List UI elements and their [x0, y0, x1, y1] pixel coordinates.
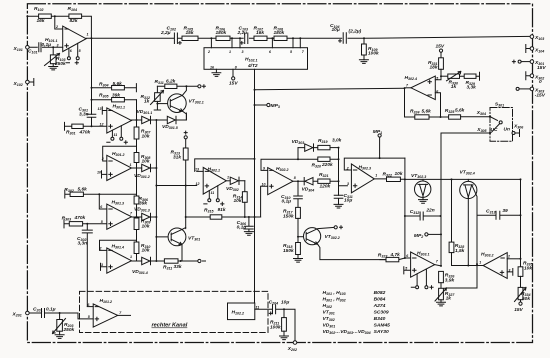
svg-text:18k: 18k [430, 64, 438, 70]
op-amp H301.1 [107, 108, 132, 133]
MP1 stub [378, 134, 381, 137]
H302.1 bottom pins [209, 186, 218, 199]
collector VT302.4 to C313 [472, 185, 477, 215]
node R109 [363, 37, 365, 39]
resistor R305 [92, 99, 137, 101]
svg-text:10k: 10k [142, 133, 150, 139]
node R103 tap [52, 46, 54, 48]
potentiometer R103 [52, 47, 54, 55]
transistor VT302.2 [298, 236, 306, 238]
svg-text:12: 12 [196, 182, 200, 186]
svg-text:0,1μ: 0,1μ [46, 307, 56, 313]
wire R315 row y217 [186, 216, 261, 218]
wire to H302.3 plus [339, 181, 348, 186]
resistor R329 [460, 72, 480, 80]
op-amp H101.1 [63, 26, 86, 51]
pins H102.1 top [211, 38, 300, 47]
resistor R211 [283, 309, 285, 317]
resistor R104 [69, 14, 82, 18]
MP2 stub [425, 233, 428, 236]
svg-text:1: 1 [479, 260, 481, 264]
terminal X102 [26, 80, 30, 84]
resistor R302 row [65, 191, 137, 198]
R313 supply [184, 131, 187, 134]
svg-text:3: 3 [101, 263, 103, 267]
H303.1 bottom pins [417, 269, 426, 286]
pin 16 ground [212, 69, 221, 76]
resistor R107 [254, 36, 267, 40]
op-amp H301.3 [107, 204, 132, 229]
wire H101.1 output [86, 37, 174, 39]
node R331/plus row [440, 75, 442, 77]
svg-text:3: 3 [508, 269, 510, 273]
svg-text:10μ: 10μ [344, 198, 352, 204]
capacitor C103 [245, 33, 248, 44]
plus stub H302.4 [435, 76, 441, 80]
wire H302.1 output [226, 180, 230, 182]
svg-text:2: 2 [55, 25, 58, 29]
emitter VT302.4 down [467, 197, 469, 265]
resistor R324 [415, 115, 429, 119]
terminal X104 [530, 47, 534, 51]
svg-text:16k: 16k [37, 18, 45, 24]
svg-text:1k: 1k [446, 296, 452, 302]
transistor VT302.4 [467, 179, 469, 185]
plus stub T-bar H301.4 [101, 263, 107, 270]
switch lever S301 [490, 117, 498, 121]
svg-text:(2,2μ): (2,2μ) [349, 28, 362, 34]
potentiometer R203 [59, 313, 61, 320]
svg-text:8: 8 [294, 176, 296, 180]
svg-text:B082: B082 [374, 290, 386, 296]
potentiometer R312 [156, 86, 158, 92]
wire H101.2 output [118, 314, 131, 316]
resistor R311 6,2k row [157, 85, 197, 87]
node R313/plus row [185, 185, 187, 187]
svg-text:2: 2 [346, 166, 349, 170]
node R203 tap [59, 312, 61, 314]
wiper R327 feedback [447, 264, 478, 288]
minus row H303.2 [507, 258, 520, 260]
terminal X101 [26, 46, 30, 50]
node output/R104 feedback [90, 37, 92, 39]
svg-text:470k: 470k [74, 215, 86, 221]
feedback row H301.2 [103, 146, 137, 161]
plus stub T-bar H301.2 [102, 171, 107, 178]
box H102.1 [204, 48, 308, 70]
svg-text:150k: 150k [283, 213, 294, 219]
diode VD301.3 [142, 213, 151, 220]
plus C104 [339, 40, 342, 43]
wire H302.4 output [405, 87, 411, 89]
feedback H302.1 [195, 159, 255, 172]
MP3 stub [255, 104, 267, 106]
svg-text:11: 11 [211, 191, 215, 195]
svg-text:180k: 180k [216, 30, 227, 36]
svg-text:8: 8 [235, 65, 237, 69]
capacitor C201 [42, 309, 45, 318]
capacitor C312 [405, 212, 441, 220]
svg-text:A274: A274 [373, 303, 386, 309]
svg-text:10k: 10k [395, 171, 403, 177]
terminal X303 [530, 87, 534, 91]
plus supply circle VT302.1 [198, 85, 201, 88]
op-amp H301.2 [107, 155, 132, 180]
potentiometer R334 [518, 287, 523, 299]
H301.1 bottom pins [112, 126, 121, 138]
node R324/R325 [440, 116, 442, 118]
svg-text:SAY30: SAY30 [374, 329, 389, 335]
svg-text:250k: 250k [54, 61, 66, 67]
svg-text:B084: B084 [374, 297, 386, 303]
transistor VT302.3 [422, 179, 424, 184]
resistor R323 [380, 258, 405, 260]
resistor R108 [274, 36, 287, 40]
plus stub H303.1 [404, 267, 411, 274]
minus supply circle [198, 259, 201, 262]
wire to X103 [364, 36, 530, 38]
vertical output to R324 [405, 88, 415, 117]
vertical x441 X305 row down to H303.1 output [440, 133, 442, 266]
wire plus input H101.1 [29, 46, 63, 48]
wire H303.1 output [435, 265, 441, 266]
svg-text:1,5k: 1,5k [455, 248, 465, 254]
svg-text:82k: 82k [70, 18, 78, 24]
wire H302.4 output row [255, 88, 405, 90]
node frame-R102 [26, 15, 28, 17]
ground R103 [49, 64, 58, 70]
plus C204 [269, 312, 272, 315]
svg-text:SC309: SC309 [374, 310, 389, 316]
capacitor C310 [294, 181, 303, 207]
svg-text:0: 0 [539, 79, 542, 85]
svg-text:-15V: -15V [535, 92, 546, 98]
wire minus H301.3 [99, 194, 107, 209]
resistor R314 [244, 181, 246, 192]
ground R211 [280, 336, 289, 340]
minus stub H302.4 [435, 93, 440, 117]
svg-text:9: 9 [263, 167, 265, 171]
R312 bottom stub [154, 101, 160, 110]
svg-text:1k: 1k [451, 84, 457, 90]
op-amp H302.2 [268, 168, 293, 195]
svg-text:10k: 10k [234, 198, 242, 204]
svg-text:39: 39 [502, 208, 508, 214]
terminal X103 [530, 35, 534, 39]
svg-text:33k: 33k [174, 264, 182, 270]
svg-text:6,2k: 6,2k [166, 78, 176, 84]
svg-text:4/T2: 4/T2 [247, 63, 258, 69]
wire H303.2 output row [452, 265, 484, 267]
capacitor C302 [82, 224, 92, 306]
svg-text:1: 1 [130, 255, 132, 259]
svg-text:3,0k: 3,0k [332, 138, 342, 144]
diode VD301.2 [142, 164, 151, 171]
feedback row H301.4 [100, 240, 137, 250]
vertical x404.9 down [404, 179, 406, 258]
plus C103 [240, 42, 243, 45]
vertical x477 collector to output [476, 215, 478, 264]
svg-text:4,7k: 4,7k [390, 252, 401, 258]
feedback H302.2 minus [261, 159, 298, 170]
svg-text:15V: 15V [514, 307, 523, 313]
feedback H302.3 [344, 158, 405, 170]
svg-text:B340: B340 [374, 316, 386, 322]
ground R327 [437, 302, 446, 306]
resistor R315 [210, 215, 222, 219]
svg-text:3: 3 [347, 182, 349, 186]
resistor R320 [298, 158, 339, 160]
svg-text:150k: 150k [283, 248, 294, 254]
resistor R328 [451, 179, 453, 242]
ground R318 [294, 259, 303, 263]
node x298 rows [297, 158, 299, 160]
potentiometer R327 [439, 288, 444, 300]
ground C311 [334, 204, 343, 208]
node collector R311 [185, 85, 187, 87]
svg-text:100k: 100k [270, 324, 281, 330]
switch S301 box dash-dot [490, 108, 513, 142]
capacitor C313 [477, 211, 521, 219]
node R322 out [404, 178, 406, 180]
svg-text:50k: 50k [522, 296, 530, 302]
svg-text:22n: 22n [425, 208, 434, 214]
ground R109 [359, 60, 368, 64]
svg-text:10μ: 10μ [281, 299, 289, 305]
wire x91.5 vertical from H101.1 output down [91, 38, 93, 126]
diode VD301.1 [142, 116, 151, 123]
wire top row y38 C102 to H102.1 pins [178, 37, 364, 39]
capacitor C204 [273, 305, 296, 341]
svg-text:1: 1 [227, 175, 229, 179]
op-amp H101.2 [93, 304, 118, 327]
ground VT302.3 [419, 200, 428, 204]
wire X305 row [441, 132, 490, 134]
ground R203 [55, 335, 64, 339]
resistor R321 [318, 179, 330, 183]
op-amp H302.4 (points left) [411, 76, 435, 100]
svg-text:10k: 10k [142, 159, 150, 165]
plus stub H303.2 [507, 269, 513, 276]
svg-text:Un: Un [504, 126, 510, 132]
svg-text:91k: 91k [218, 207, 226, 213]
op-amp H302.3 [351, 164, 374, 193]
svg-text:10k: 10k [142, 223, 150, 229]
svg-text:rechter Kanal: rechter Kanal [152, 323, 188, 329]
svg-text:5,6k: 5,6k [422, 108, 432, 114]
svg-text:0,1μ: 0,1μ [237, 225, 247, 231]
svg-text:2: 2 [101, 157, 104, 161]
op-amp H301.4 [107, 248, 132, 273]
wire H302.2 output row [293, 180, 339, 182]
wire base row y179.4 [405, 178, 521, 180]
capacitor C101 [39, 43, 41, 52]
wire VT302.1 base [157, 103, 170, 105]
wire H302.1 plus row [156, 185, 196, 187]
svg-text:2: 2 [207, 50, 210, 54]
resistor R308 [134, 153, 139, 163]
svg-text:1: 1 [87, 33, 89, 37]
svg-text:5,6k: 5,6k [78, 187, 88, 193]
diode VD302 [230, 177, 245, 184]
resistor R102 [39, 14, 52, 18]
svg-text:250k: 250k [63, 327, 75, 333]
capacitor C104 [343, 33, 346, 44]
svg-text:39k: 39k [139, 201, 147, 207]
op-amp H303.2 (points left) [483, 253, 507, 279]
node VT302.2 base [297, 236, 299, 238]
resistor R319 [318, 145, 330, 149]
diode VD301.5 [156, 113, 186, 124]
svg-text:39k: 39k [112, 92, 120, 98]
terminal X302 [530, 74, 534, 78]
capacitor C311 [334, 195, 343, 204]
dashed box rechter Kanal [80, 291, 269, 332]
vertical x520.5 [520, 179, 522, 258]
diode chain vertical x156.4 [155, 120, 157, 261]
svg-text:470k: 470k [79, 130, 91, 136]
resistor R106 [216, 36, 230, 40]
ground C306 [244, 232, 253, 236]
diode VD303 [298, 144, 318, 151]
node C302 tap [86, 223, 88, 225]
svg-text:3: 3 [242, 50, 244, 54]
wire output row3 [132, 216, 157, 218]
svg-text:10: 10 [97, 171, 101, 175]
supply 15V R331 [439, 49, 442, 52]
svg-text:13: 13 [98, 107, 102, 111]
contact X304 [489, 116, 491, 118]
box H102.2 [228, 303, 255, 320]
svg-text:10μ: 10μ [332, 27, 340, 33]
node chain row217 [254, 216, 256, 218]
node R305 left [91, 99, 93, 101]
resistor R325 [449, 115, 461, 119]
svg-text:11: 11 [256, 306, 260, 310]
diode VD304 [304, 178, 313, 185]
capacitor C102 [174, 33, 177, 44]
svg-text:1k: 1k [144, 98, 150, 104]
wire output row1 [132, 119, 157, 121]
svg-text:3,9k: 3,9k [445, 277, 455, 283]
svg-text:10k: 10k [142, 248, 150, 254]
resistor R318 [297, 237, 299, 243]
svg-text:0,1μ: 0,1μ [282, 199, 292, 205]
terminal X202 [293, 341, 297, 345]
svg-text:5,6k: 5,6k [113, 81, 123, 87]
wire H302.3 output [374, 178, 405, 180]
plus row H301.1 from R301 [65, 122, 107, 130]
svg-text:220k: 220k [321, 162, 333, 168]
potentiometer R330 [441, 75, 448, 77]
svg-text:12: 12 [100, 123, 104, 127]
svg-text:15V: 15V [436, 44, 445, 50]
svg-text:2,2μ: 2,2μ [160, 30, 171, 36]
wire H102.2 out [255, 308, 272, 310]
pin 9 long vertical [254, 69, 256, 303]
svg-text:2: 2 [507, 255, 510, 259]
vertical x338.5 [338, 148, 340, 196]
svg-text:180k: 180k [274, 30, 285, 36]
transistor VT301 [156, 236, 171, 238]
resistor R301 470k [72, 124, 83, 128]
svg-text:10: 10 [262, 183, 266, 187]
svg-text:16k: 16k [256, 30, 264, 36]
resistor R317 [296, 207, 301, 218]
resistor R105 [182, 36, 198, 40]
resistor R304 [92, 84, 137, 92]
node C301/R301 [91, 125, 93, 127]
svg-text:2: 2 [99, 247, 102, 251]
capacitor C301 [87, 114, 96, 126]
minus stub T-bar H301.1 [102, 107, 107, 114]
node R304 left [91, 87, 93, 89]
svg-text:1: 1 [375, 174, 377, 178]
resistor R109 [363, 38, 365, 60]
resistor R313 [183, 148, 188, 160]
wire X102 stub [29, 79, 34, 86]
svg-text:SAM45: SAM45 [374, 323, 391, 329]
svg-text:120k: 120k [320, 183, 331, 189]
resistor R335 [520, 259, 522, 267]
contact X306 [512, 132, 515, 135]
svg-text:2,2μ: 2,2μ [237, 30, 248, 36]
capacitor C306 [245, 217, 254, 232]
plus supply VT302.2 [334, 226, 337, 229]
svg-text:15V: 15V [229, 81, 238, 87]
svg-text:100k: 100k [368, 50, 379, 56]
svg-text:3,3n: 3,3n [78, 240, 88, 246]
node R211 [283, 308, 285, 310]
svg-text:15V: 15V [537, 65, 546, 71]
op-amp H101.1 bottom pins [69, 43, 78, 56]
svg-text:10k: 10k [524, 265, 532, 271]
node R313/R315 row [185, 216, 187, 218]
resistor R306 [134, 196, 139, 204]
wire minus from C302 [87, 306, 93, 308]
svg-text:UC: UC [491, 127, 498, 133]
svg-text:3,3k: 3,3k [467, 85, 477, 91]
resistor R307 [134, 127, 139, 139]
vertical x404.9 feedback [404, 158, 406, 179]
svg-text:31k: 31k [173, 154, 181, 160]
minus row H303.1 [405, 257, 411, 259]
terminal X201 [26, 311, 30, 315]
resistor R309 [134, 218, 139, 230]
pin 8 supply 15V [232, 69, 234, 77]
node R302/minus [98, 193, 100, 195]
resistor R303 row [64, 220, 107, 228]
svg-text:1: 1 [130, 163, 132, 167]
wire X201 input [29, 313, 93, 319]
transistor VT302.1 [168, 94, 187, 113]
node R328 top [451, 178, 453, 180]
svg-text:13: 13 [195, 168, 199, 172]
node R102/R104 [54, 15, 56, 17]
svg-text:1: 1 [229, 50, 231, 54]
wire R102 row [27, 16, 91, 38]
resistor R322 [387, 177, 401, 181]
svg-text:11: 11 [114, 133, 118, 137]
svg-text:15k: 15k [186, 30, 194, 36]
terminal X301 [530, 60, 534, 64]
resistor R311 33k [164, 259, 178, 263]
svg-text:3: 3 [57, 43, 59, 47]
plus C102 [179, 42, 182, 45]
op-amp H303.1 [411, 252, 435, 277]
op-amp H302.1 [203, 167, 226, 194]
svg-text:5,6k: 5,6k [455, 108, 465, 114]
